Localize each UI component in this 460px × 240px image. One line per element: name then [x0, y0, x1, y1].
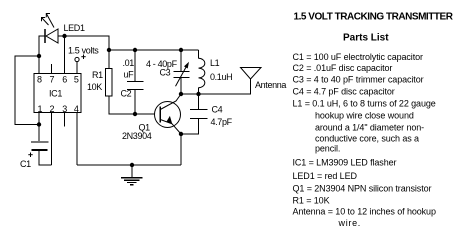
wire: emitter lead down to ground rail — [180, 134, 182, 165]
wire: R1 bottom lead to base rail — [109, 96, 155, 114]
Q1 collector line — [160, 94, 181, 110]
capacitor C1 electrolytic plates — [31, 142, 49, 150]
junction node (pin1 / C1) — [37, 122, 41, 126]
ground symbol — [121, 165, 143, 185]
C3 trimmer arrow — [176, 62, 190, 87]
battery plus sign — [81, 55, 85, 60]
wire: left rail from node A down to pin1 node — [15, 56, 39, 125]
wire: battery + terminal lead to pin 5 — [76, 62, 78, 74]
svg-text:1.5 volts: 1.5 volts — [68, 46, 99, 56]
svg-text:C1: C1 — [20, 159, 31, 169]
svg-text:C3: C3 — [160, 68, 171, 78]
svg-text:IC1 = LM3909 LED flasher: IC1 = LM3909 LED flasher — [293, 158, 397, 168]
svg-text:2: 2 — [49, 104, 54, 114]
wire: V+ rail to L1 — [109, 49, 199, 51]
svg-text:C3 = 4 to 40 pF trimmer capaci: C3 = 4 to 40 pF trimmer capacitor — [293, 75, 424, 85]
svg-text:4: 4 — [74, 104, 79, 114]
wire: pin 7 stub — [51, 64, 53, 74]
junction node (base rail / C2) — [133, 112, 137, 116]
svg-text:6: 6 — [62, 75, 67, 85]
svg-text:pencil.: pencil. — [315, 144, 340, 154]
wire: pin 1 lead — [38, 113, 40, 125]
junction node A (LED/left rail/pin8) — [37, 54, 41, 58]
wire: C3 bottom lead — [180, 78, 182, 95]
wire: C4 top lead — [198, 94, 200, 110]
wire: C2 bottom lead — [134, 90, 136, 115]
Q1 emitter line with arrow — [160, 116, 181, 134]
svg-text:L1 = 0.1 uH, 6 to 8 turns of 2: L1 = 0.1 uH, 6 to 8 turns of 22 gauge — [293, 99, 436, 109]
IC U1 LM3909 body — [34, 74, 81, 113]
svg-text:Q1 = 2N3904 NPN silicon transi: Q1 = 2N3904 NPN silicon transistor — [293, 184, 432, 194]
wire: pin 6 lead up to LED wire — [64, 36, 66, 74]
junction node (emitter / C4) — [179, 132, 183, 136]
inductor L1 coil — [199, 58, 205, 87]
junction node (tank / L1 / C4 / antenna) — [196, 92, 200, 96]
svg-text:hookup wire close wound: hookup wire close wound — [315, 111, 414, 121]
wire: tank node to antenna — [199, 79, 251, 94]
svg-text:C4: C4 — [212, 105, 223, 115]
svg-text:4.7pF: 4.7pF — [211, 117, 233, 127]
wire: pin 8 lead — [38, 56, 40, 74]
antenna symbol — [241, 68, 262, 80]
svg-text:IC1: IC1 — [49, 89, 62, 99]
svg-text:around a 1/4" diameter non-: around a 1/4" diameter non- — [315, 123, 424, 133]
svg-text:Parts List: Parts List — [343, 33, 389, 44]
wire: LED cathode jog to left column — [39, 36, 45, 56]
svg-text:LED1: LED1 — [64, 23, 85, 33]
LED1 emission arrow 1 — [42, 18, 49, 26]
svg-text:LED1 = red LED: LED1 = red LED — [293, 171, 358, 181]
wire: C1 bottom to pin 2 — [39, 151, 52, 166]
svg-text:C1 = 100 uF electrolytic capac: C1 = 100 uF electrolytic capacitor — [293, 52, 424, 62]
wire: pin 4 lead down to ground rail — [76, 113, 78, 166]
junction node (V+ rail / R1) — [107, 48, 111, 52]
svg-text:R1 = 10K: R1 = 10K — [293, 196, 330, 206]
svg-text:1: 1 — [37, 104, 42, 114]
svg-text:7: 7 — [49, 75, 54, 85]
svg-text:wire.: wire. — [338, 218, 362, 228]
Q1 base bar — [159, 107, 161, 123]
svg-text:C2: C2 — [121, 89, 132, 99]
wire: collector node rail to tank node — [181, 93, 199, 95]
junction node (LED anode / pin6) — [62, 34, 66, 38]
resistor R1 body — [106, 69, 113, 97]
svg-text:C4 = 4.7 pF disc capacitor: C4 = 4.7 pF disc capacitor — [293, 87, 395, 97]
svg-text:10K: 10K — [87, 82, 102, 92]
svg-text:5: 5 — [74, 75, 79, 85]
wire: LED anode to top-right corner down to V+ rail — [58, 36, 109, 50]
wire: L1 bottom lead — [198, 88, 200, 94]
junction node (V+ rail / C2) — [133, 48, 137, 52]
transistor Q1 circle — [155, 102, 181, 128]
wire: C3 top lead — [180, 50, 182, 72]
svg-text:L1: L1 — [210, 58, 220, 68]
wire: ground rail — [77, 164, 181, 166]
battery + terminal (1.5 volts) — [75, 57, 79, 61]
wire: pin 3 stub — [64, 113, 66, 127]
svg-text:8: 8 — [37, 75, 42, 85]
svg-text:C2 = .01uF disc capacitor: C2 = .01uF disc capacitor — [293, 63, 393, 73]
wire: C4 bottom lead to emitter node — [181, 119, 199, 135]
trimmer capacitor C3 plates — [174, 72, 190, 78]
capacitor C4 plates — [190, 110, 208, 119]
svg-text:2N3904: 2N3904 — [122, 131, 152, 141]
svg-text:conductive core, such as a: conductive core, such as a — [315, 134, 419, 144]
wire: R1 top lead — [108, 50, 110, 69]
svg-text:uF: uF — [124, 70, 135, 80]
junction node (V+ rail / C3) — [179, 48, 183, 52]
wire: pin 2 lead down — [51, 113, 53, 166]
svg-text:Antenna: Antenna — [255, 80, 286, 90]
junction node (ground rail) — [130, 163, 134, 167]
LED1 emission arrow 2 — [46, 14, 54, 28]
junction node (collector / C3 / tank) — [179, 92, 183, 96]
svg-text:R1: R1 — [92, 70, 103, 80]
svg-text:Antenna = 10 to 12 inches of h: Antenna = 10 to 12 inches of hookup — [293, 207, 436, 217]
C1 plus sign — [28, 153, 32, 158]
svg-text:.01: .01 — [123, 58, 135, 68]
LED LED1 symbol — [45, 29, 58, 43]
C1 top lead — [38, 125, 40, 142]
capacitor C2 plates — [127, 82, 144, 90]
svg-text:1.5 VOLT TRACKING TRANSMITTER: 1.5 VOLT TRACKING TRANSMITTER — [294, 12, 454, 23]
svg-text:3: 3 — [62, 104, 67, 114]
svg-text:0.1uH: 0.1uH — [210, 72, 232, 82]
wire: C2 top lead — [134, 50, 136, 82]
wire: L1 top lead — [198, 50, 200, 58]
